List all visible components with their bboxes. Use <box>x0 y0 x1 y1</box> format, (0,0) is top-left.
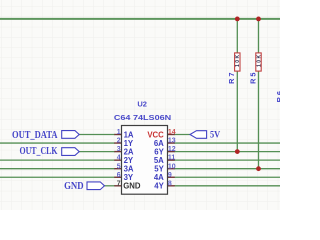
wire: pin8 row to right edge <box>174 185 280 187</box>
net flag GND <box>87 182 105 190</box>
resistor R7 body <box>235 53 240 71</box>
svg-text:10K: 10K <box>256 54 262 67</box>
op-amp U2 body (74LS06N IC box) <box>122 126 168 195</box>
svg-text:6: 6 <box>117 172 121 179</box>
svg-text:10: 10 <box>168 163 176 170</box>
svg-text:9: 9 <box>168 172 172 179</box>
svg-text:1: 1 <box>117 129 121 136</box>
wire: pin13 row to right edge <box>174 142 280 144</box>
svg-text:13: 13 <box>168 138 176 145</box>
svg-text:C64 74LS06N: C64 74LS06N <box>114 114 171 122</box>
junction: rail / R5 column <box>256 17 261 22</box>
pin stubs right (pins 8-14) <box>168 135 175 186</box>
wire: OUT_DATA flag to pin1 <box>79 134 115 136</box>
net flag 5V <box>190 131 207 139</box>
wire: GND flag to pin7 <box>104 185 115 187</box>
net flag OUT_DATA <box>62 131 79 139</box>
svg-text:4Y: 4Y <box>154 182 164 191</box>
wire: pin14 to 5V flag <box>174 134 190 136</box>
net flag OUT_CLK <box>62 148 79 156</box>
pin stubs left (pins 1-7) <box>114 135 121 186</box>
svg-text:OUT_DATA: OUT_DATA <box>12 130 58 141</box>
wire: pin6 row to left edge <box>0 176 115 178</box>
wire: vertical R5 column <box>258 19 260 169</box>
wire: pin12 row to right edge <box>174 151 280 153</box>
junction: pin10 row / R5 column <box>256 166 261 171</box>
svg-text:14: 14 <box>168 129 176 136</box>
wire: pin11 row to right edge <box>174 159 280 161</box>
svg-text:10K: 10K <box>235 54 241 67</box>
svg-text:2: 2 <box>117 138 121 145</box>
svg-text:8: 8 <box>168 180 172 187</box>
wire: pin4 row to left edge <box>0 159 115 161</box>
svg-text:12: 12 <box>168 146 176 153</box>
wire: OUT_CLK flag to pin3 <box>79 151 115 153</box>
svg-text:7: 7 <box>117 180 121 187</box>
wire: pin9 row to right edge <box>174 176 280 178</box>
resistor R5 body <box>256 53 261 71</box>
svg-text:OUT_CLK: OUT_CLK <box>20 146 59 157</box>
wire: pin2 row to left edge <box>0 142 115 144</box>
wire: 5V top power rail <box>0 18 280 20</box>
svg-text:11: 11 <box>168 155 176 162</box>
svg-text:3: 3 <box>117 146 121 153</box>
svg-text:5V: 5V <box>210 130 220 140</box>
svg-text:5: 5 <box>117 163 121 170</box>
svg-text:U2: U2 <box>137 100 147 109</box>
wire: pin5 row to left edge <box>0 168 115 170</box>
junction: rail / R7 column <box>235 17 240 22</box>
wire: pin10 row to right edge <box>174 168 280 170</box>
svg-text:GND: GND <box>64 181 84 192</box>
svg-text:GND: GND <box>123 182 141 191</box>
svg-text:4: 4 <box>117 155 121 162</box>
wire: vertical R7 column <box>236 19 238 152</box>
junction: pin12 row / R7 column <box>235 149 240 154</box>
